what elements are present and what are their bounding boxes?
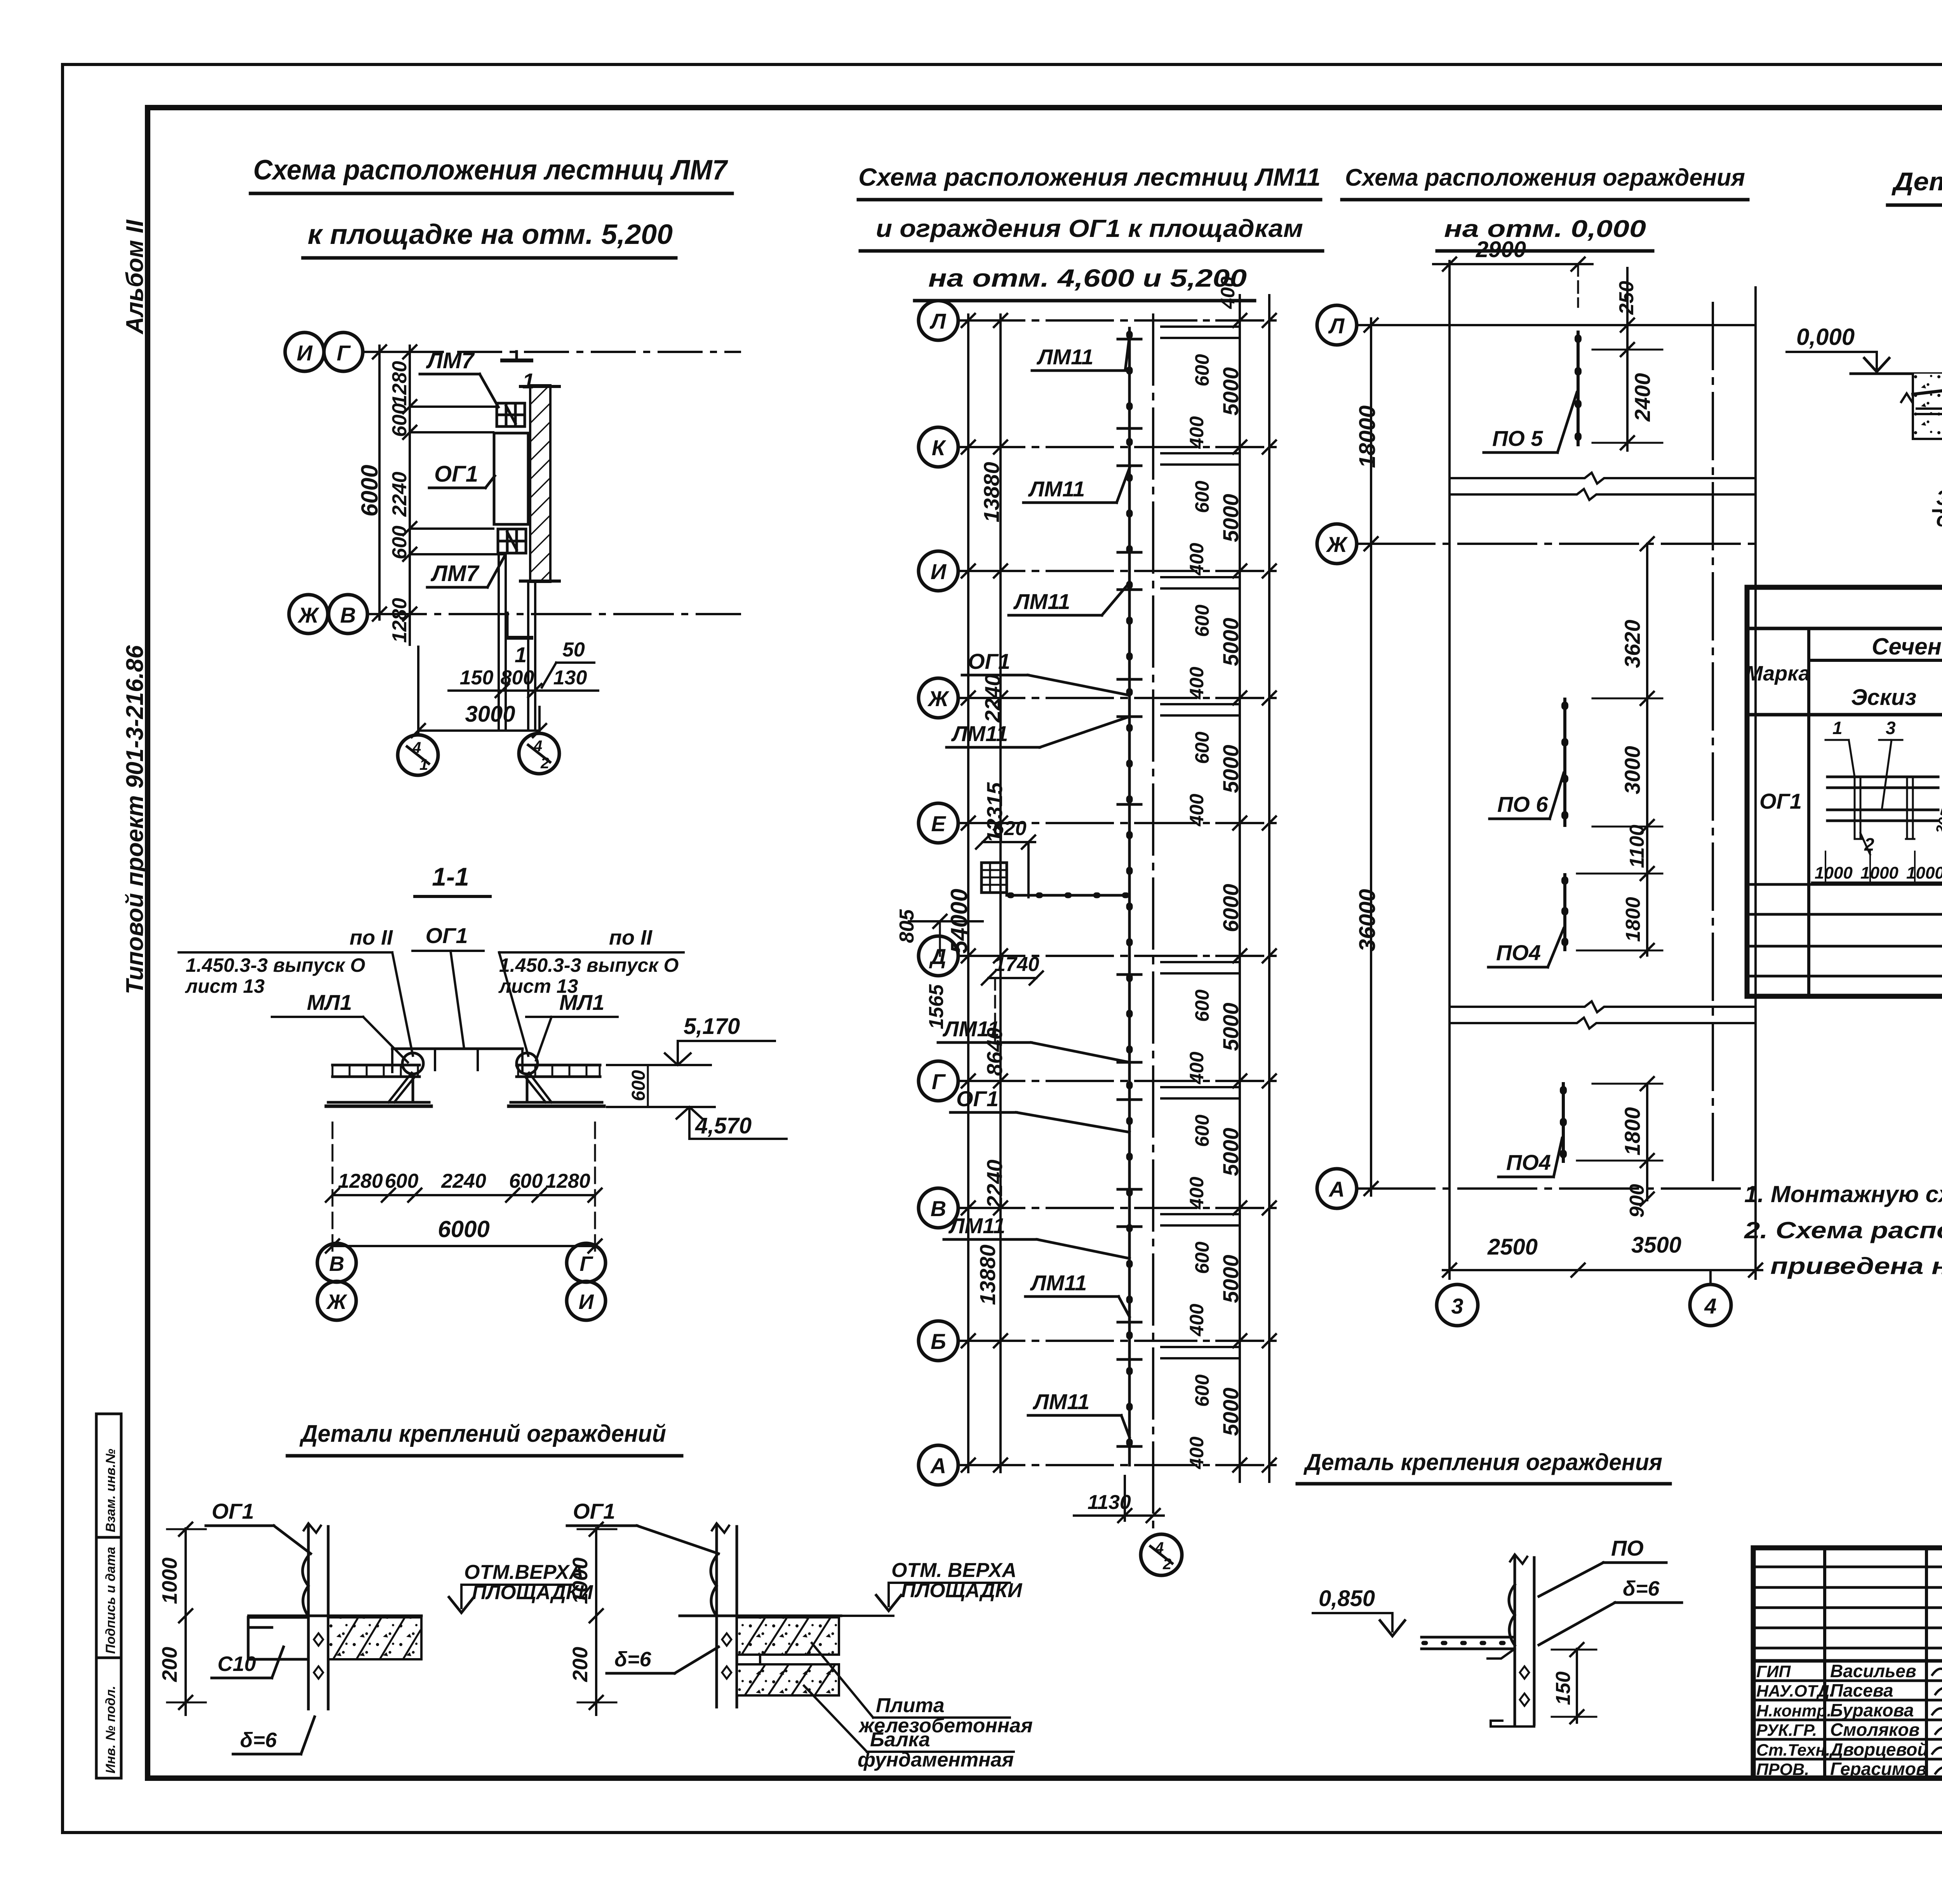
figure ЛМ11: vertical axis dash-dot bbox=[1152, 315, 1154, 1534]
svg-text:3000: 3000 bbox=[1620, 746, 1644, 794]
figure ЛМ7: ОГ1 railing rect bbox=[494, 433, 528, 524]
svg-text:ОГ1: ОГ1 bbox=[425, 923, 468, 948]
svg-text:5000: 5000 bbox=[1218, 494, 1243, 542]
svg-text:Е: Е bbox=[931, 811, 946, 836]
svg-text:ПО4: ПО4 bbox=[1496, 940, 1541, 965]
svg-text:ГИП: ГИП bbox=[1756, 1662, 1791, 1681]
svg-text:1800: 1800 bbox=[1620, 1107, 1644, 1156]
svg-text:2900: 2900 bbox=[1476, 237, 1526, 262]
figure ограждение 0,000: grid circles bbox=[1317, 305, 1756, 1208]
figure ЛМ7: label ЛМ7 bottom bbox=[427, 555, 505, 587]
svg-text:2: 2 bbox=[540, 755, 549, 772]
svg-text:К: К bbox=[932, 435, 947, 460]
svg-text:ЛМ11: ЛМ11 bbox=[948, 1213, 1005, 1238]
figure ограждение: panel ПО4 lower with 1800/900 dims bbox=[1498, 1077, 1662, 1218]
svg-text:5000: 5000 bbox=[1218, 745, 1243, 793]
svg-text:Ж: Ж bbox=[326, 1290, 348, 1314]
figure ЛМ7: 3000 dim and bottom circles bbox=[398, 647, 559, 775]
svg-text:1-1: 1-1 bbox=[432, 862, 469, 891]
notes bbox=[1744, 1181, 1942, 1279]
svg-text:И: И bbox=[579, 1290, 594, 1314]
svg-text:Альбом II: Альбом II bbox=[122, 219, 148, 335]
svg-text:1000: 1000 bbox=[1860, 863, 1898, 882]
svg-text:400: 400 bbox=[1186, 1304, 1208, 1337]
svg-text:ЛМ7: ЛМ7 bbox=[430, 561, 480, 586]
svg-text:Марка: Марка bbox=[1745, 662, 1810, 685]
svg-text:600: 600 bbox=[1191, 480, 1213, 513]
svg-text:ЛМ11: ЛМ11 bbox=[951, 721, 1008, 746]
svg-text:0,850: 0,850 bbox=[1319, 1586, 1375, 1611]
svg-text:2240: 2240 bbox=[980, 674, 1005, 723]
svg-text:НАУ.ОТД.: НАУ.ОТД. bbox=[1756, 1682, 1834, 1700]
bottom-middle detail drawing bbox=[1313, 1536, 1682, 1726]
section 1-1: left reference label bbox=[179, 926, 413, 1056]
svg-text:Дворцевой: Дворцевой bbox=[1829, 1739, 1928, 1760]
svg-text:2: 2 bbox=[1162, 1556, 1171, 1573]
svg-text:1800: 1800 bbox=[1622, 897, 1644, 942]
section 1-1: 5,170 and 4,570 elevations bbox=[607, 1014, 787, 1139]
figure ЛМ11: walkway edge double lines at grids bbox=[1161, 327, 1239, 1358]
svg-text:400: 400 bbox=[1217, 276, 1239, 309]
svg-text:Ж: Ж bbox=[297, 603, 320, 627]
svg-text:3: 3 bbox=[1886, 718, 1896, 738]
svg-text:ЛМ11: ЛМ11 bbox=[1032, 1389, 1089, 1414]
svg-text:Подпись и дата: Подпись и дата bbox=[103, 1547, 118, 1654]
svg-text:1000: 1000 bbox=[1815, 863, 1853, 882]
svg-text:0,000: 0,000 bbox=[1796, 324, 1855, 350]
svg-text:900: 900 bbox=[1626, 1184, 1648, 1218]
svg-text:приведена на листе КЖ 61.: приведена на листе КЖ 61. bbox=[1770, 1253, 1942, 1279]
svg-text:2500: 2500 bbox=[1487, 1234, 1538, 1260]
figure ЛМ7: section mark 1 bottom bbox=[507, 613, 531, 667]
svg-text:600: 600 bbox=[1191, 354, 1213, 386]
svg-text:805: 805 bbox=[896, 909, 918, 943]
svg-text:3620: 3620 bbox=[1620, 620, 1644, 668]
figure ограждение: 250 / 2400 dims bbox=[1592, 268, 1662, 451]
svg-text:200: 200 bbox=[569, 1647, 592, 1682]
bottom-left detail 2: ОГ1 to slab bbox=[567, 1499, 1033, 1771]
svg-text:1.450.3-3 выпуск О: 1.450.3-3 выпуск О bbox=[186, 954, 365, 976]
svg-text:Б: Б bbox=[931, 1329, 946, 1354]
svg-text:Сечения: Сечения bbox=[1872, 634, 1942, 660]
figure ЛМ11: bottom 1130 dim and circle 4/2 bbox=[1074, 1476, 1182, 1575]
svg-text:ПО: ПО bbox=[1611, 1536, 1644, 1560]
svg-text:1. Монтажную схему лестницы: 1. Монтажную схему лестницы ЛМ11. смотре… bbox=[1744, 1181, 1942, 1207]
svg-text:МЛ1: МЛ1 bbox=[559, 990, 604, 1015]
figure ограждение: panel ПО6 bbox=[1490, 699, 1565, 825]
svg-text:400: 400 bbox=[1186, 667, 1208, 700]
figure ограждение: panel boundary verticals bbox=[1450, 261, 1756, 1279]
svg-text:130: 130 bbox=[553, 667, 587, 689]
title: figure 2 ЛМ11 bbox=[858, 163, 1323, 301]
svg-text:Г: Г bbox=[337, 341, 351, 365]
figure ЛМ7: label ОГ1 bbox=[429, 461, 495, 488]
left margin vertical caption: project bbox=[122, 645, 148, 994]
svg-text:ПО 5: ПО 5 bbox=[1492, 426, 1543, 451]
svg-text:600: 600 bbox=[385, 1170, 419, 1192]
svg-text:400: 400 bbox=[1186, 416, 1208, 449]
svg-text:Закладная: Закладная bbox=[1936, 486, 1942, 510]
figure ЛМ7: section mark 1 top bbox=[502, 352, 534, 393]
figure ЛМ7: grid axis lines bbox=[363, 352, 740, 614]
svg-text:1000: 1000 bbox=[569, 1558, 592, 1604]
figure ЛМ11: left bay dimension texts bbox=[946, 462, 1007, 1305]
svg-text:ОГ1: ОГ1 bbox=[968, 649, 1010, 674]
figure ЛМ7: 150 800 130 dims bbox=[449, 667, 598, 697]
svg-text:ПО4: ПО4 bbox=[1506, 1150, 1551, 1175]
svg-text:Плита: Плита bbox=[876, 1694, 945, 1717]
svg-text:Инв. № подл.: Инв. № подл. bbox=[103, 1686, 118, 1773]
svg-text:ЛМ11: ЛМ11 bbox=[1030, 1270, 1087, 1295]
svg-text:600: 600 bbox=[1191, 989, 1213, 1022]
svg-text:МЛ1: МЛ1 bbox=[307, 990, 352, 1015]
svg-text:лист 13: лист 13 bbox=[185, 975, 265, 997]
svg-text:1100: 1100 bbox=[1626, 825, 1648, 868]
svg-text:А: А bbox=[1328, 1177, 1345, 1201]
svg-text:1.450.3-3 выпуск О: 1.450.3-3 выпуск О bbox=[499, 954, 679, 976]
bottom-left detail 1: ОГ1 to С10 channel bbox=[158, 1499, 593, 1754]
svg-text:Г: Г bbox=[579, 1252, 593, 1276]
svg-text:2. Схема расположения площад: 2. Схема расположения площадок на отм. 5… bbox=[1744, 1217, 1942, 1243]
svg-text:В: В bbox=[340, 603, 356, 627]
svg-text:1: 1 bbox=[515, 642, 527, 667]
svg-text:Д: Д bbox=[929, 944, 946, 969]
figure ЛМ7: stair stringers going down bbox=[499, 553, 535, 729]
title: figure 1 ЛМ7 bbox=[251, 155, 732, 258]
svg-text:А: А bbox=[930, 1453, 946, 1478]
svg-text:400: 400 bbox=[1186, 1436, 1208, 1469]
svg-text:36000: 36000 bbox=[1355, 889, 1380, 952]
svg-text:ОТМ.ВЕРХА: ОТМ.ВЕРХА bbox=[464, 1561, 584, 1584]
figure ЛМ11: element labels bbox=[938, 336, 1129, 1437]
svg-text:И: И bbox=[931, 559, 947, 584]
figure ЛМ11: right dimension chain lines bbox=[1233, 295, 1276, 1482]
svg-text:13880: 13880 bbox=[975, 1244, 1000, 1305]
svg-text:Схема расположения лестниц ЛМ7: Схема расположения лестниц ЛМ7 bbox=[253, 155, 728, 186]
svg-text:5000: 5000 bbox=[1218, 1128, 1243, 1176]
svg-text:1: 1 bbox=[1832, 718, 1843, 738]
table data rows bbox=[1747, 748, 1942, 976]
svg-text:5000: 5000 bbox=[1218, 1255, 1243, 1303]
svg-text:2240: 2240 bbox=[982, 1159, 1007, 1208]
svg-text:400: 400 bbox=[1186, 543, 1208, 576]
svg-text:Схема расположения ограждения: Схема расположения ограждения bbox=[1345, 164, 1745, 191]
svg-text:2240: 2240 bbox=[441, 1170, 486, 1192]
svg-text:6000: 6000 bbox=[438, 1216, 489, 1242]
svg-text:600: 600 bbox=[1191, 1241, 1213, 1274]
svg-text:по II: по II bbox=[350, 926, 393, 949]
svg-text:600: 600 bbox=[509, 1170, 543, 1192]
svg-text:1000: 1000 bbox=[158, 1558, 181, 1604]
svg-text:1: 1 bbox=[419, 756, 428, 773]
section 1-1: bottom dimensions bbox=[326, 1123, 602, 1253]
section 1-1: drawing bbox=[326, 1049, 604, 1106]
svg-text:Л: Л bbox=[1328, 313, 1345, 338]
svg-text:ОГ1: ОГ1 bbox=[573, 1499, 615, 1523]
svg-text:ПРОВ.: ПРОВ. bbox=[1756, 1760, 1809, 1779]
svg-text:3500: 3500 bbox=[1631, 1232, 1681, 1258]
svg-text:3000: 3000 bbox=[465, 701, 515, 727]
svg-text:2240: 2240 bbox=[388, 472, 411, 517]
left slab bbox=[332, 1065, 419, 1077]
svg-text:1000: 1000 bbox=[1906, 863, 1942, 882]
svg-text:600: 600 bbox=[388, 403, 411, 437]
svg-text:на отм. 0,000: на отм. 0,000 bbox=[1444, 216, 1646, 242]
figure ограждение: 2900 dim top bbox=[1433, 237, 1592, 307]
figure ЛМ11: right chain dimension texts bbox=[1186, 276, 1243, 1469]
svg-text:Схема расположения лестниц ЛМ1: Схема расположения лестниц ЛМ11 bbox=[858, 163, 1321, 191]
svg-text:620: 620 bbox=[993, 817, 1027, 840]
svg-text:Л: Л bbox=[929, 309, 947, 333]
svg-text:В: В bbox=[931, 1196, 946, 1221]
figure ЛМ7: dimension texts bbox=[357, 361, 411, 643]
svg-text:5000: 5000 bbox=[1218, 1387, 1243, 1436]
svg-text:Детали креплений ограждений.: Детали креплений ограждений. bbox=[1892, 167, 1942, 196]
figure ЛМ11: stair flight end caps bbox=[1118, 339, 1141, 1446]
svg-text:С10: С10 bbox=[218, 1652, 256, 1676]
svg-text:150: 150 bbox=[460, 667, 494, 689]
figure ограждение: panel ПО4 upper bbox=[1488, 875, 1565, 967]
svg-text:Ст.Техн.: Ст.Техн. bbox=[1756, 1741, 1830, 1760]
title: figure 3 ограждение bbox=[1342, 164, 1748, 251]
svg-text:ЛМ11: ЛМ11 bbox=[1028, 477, 1085, 501]
svg-text:и ограждения ОГ1 к площадкам: и ограждения ОГ1 к площадкам bbox=[876, 214, 1303, 242]
svg-text:4: 4 bbox=[1155, 1539, 1164, 1556]
svg-text:Пасева: Пасева bbox=[1830, 1680, 1893, 1700]
figure ограждение: bottom 2500/3500 dim and circles 3 4 bbox=[1437, 1232, 1762, 1326]
svg-text:600: 600 bbox=[628, 1070, 649, 1101]
svg-text:ЛМ7: ЛМ7 bbox=[426, 348, 475, 373]
figure ограждение: break lines bottom bbox=[1450, 1001, 1756, 1029]
figure ЛМ7: vertical dimension lines bbox=[373, 345, 416, 645]
ОГ1 bridge top bbox=[392, 1048, 522, 1050]
svg-text:Эскиз: Эскиз bbox=[1851, 685, 1916, 710]
svg-text:6000: 6000 bbox=[1218, 884, 1243, 932]
svg-text:400: 400 bbox=[1186, 794, 1208, 827]
title block (stamp) bbox=[1753, 1548, 1942, 1778]
right slab bbox=[517, 1065, 600, 1077]
svg-text:600: 600 bbox=[1191, 604, 1213, 637]
support braces right bbox=[525, 1073, 552, 1102]
svg-text:Г: Г bbox=[932, 1069, 946, 1094]
svg-text:5,170: 5,170 bbox=[684, 1014, 740, 1039]
svg-text:1280: 1280 bbox=[545, 1170, 590, 1192]
svg-text:3: 3 bbox=[1451, 1294, 1463, 1318]
svg-text:600: 600 bbox=[1191, 1114, 1213, 1147]
svg-text:4,570: 4,570 bbox=[695, 1113, 752, 1138]
svg-text:Васильев: Васильев bbox=[1830, 1661, 1916, 1681]
svg-text:400: 400 bbox=[1186, 1177, 1208, 1210]
svg-text:Ж: Ж bbox=[1326, 532, 1348, 557]
svg-text:по II: по II bbox=[609, 926, 653, 949]
svg-text:ОГ1: ОГ1 bbox=[1759, 789, 1802, 813]
title: details top right bbox=[1888, 167, 1942, 205]
svg-text:РУК.ГР.: РУК.ГР. bbox=[1756, 1721, 1817, 1740]
svg-text:Смоляков: Смоляков bbox=[1830, 1720, 1919, 1740]
figure ЛМ11: 805 and 1565 dims near Д bbox=[896, 909, 1043, 1041]
svg-text:ЛМ11: ЛМ11 bbox=[1036, 345, 1093, 369]
svg-text:50: 50 bbox=[562, 639, 585, 661]
figure ограждение: panel ПО5 bbox=[1484, 332, 1578, 453]
figure ЛМ7: dim transfer lines bbox=[410, 407, 503, 554]
svg-text:6000: 6000 bbox=[357, 465, 383, 517]
svg-text:1280: 1280 bbox=[388, 598, 411, 643]
svg-text:ОГ1: ОГ1 bbox=[212, 1499, 254, 1523]
svg-text:на отм. 4,600 и 5,200: на отм. 4,600 и 5,200 bbox=[928, 264, 1247, 292]
svg-text:ОТМ. ВЕРХА: ОТМ. ВЕРХА bbox=[891, 1559, 1016, 1582]
svg-text:600: 600 bbox=[1191, 731, 1213, 764]
svg-text:Н.контр.: Н.контр. bbox=[1756, 1702, 1831, 1720]
svg-text:Герасимов: Герасимов bbox=[1830, 1759, 1927, 1779]
svg-text:ОГ1: ОГ1 bbox=[434, 461, 478, 487]
svg-text:Взам. инв.№: Взам. инв.№ bbox=[103, 1449, 118, 1532]
bottom-left details title bbox=[287, 1420, 682, 1456]
svg-text:2400: 2400 bbox=[1630, 373, 1655, 422]
svg-text:Детали креплений ограждений: Детали креплений ограждений bbox=[299, 1420, 666, 1447]
svg-text:5000: 5000 bbox=[1218, 618, 1243, 666]
svg-text:Буракова: Буракова bbox=[1830, 1700, 1914, 1720]
figure ЛМ7: 50 label bbox=[542, 639, 594, 687]
svg-text:600: 600 bbox=[1191, 1374, 1213, 1407]
svg-text:150: 150 bbox=[1552, 1671, 1575, 1705]
table sketch in Эскиз cell bbox=[1812, 718, 1942, 882]
svg-text:4: 4 bbox=[533, 738, 542, 755]
svg-text:δ=6: δ=6 bbox=[614, 1648, 651, 1671]
svg-text:И: И bbox=[297, 341, 313, 365]
pivots bbox=[402, 1053, 423, 1074]
section 1-1: ОГ1 label bbox=[412, 923, 484, 1049]
left margin vertical caption: album bbox=[122, 219, 148, 335]
svg-text:Типовой проект 901-3-216.86: Типовой проект 901-3-216.86 bbox=[122, 645, 148, 994]
section 1-1: МЛ1 labels bbox=[272, 990, 618, 1062]
svg-text:4: 4 bbox=[412, 739, 421, 756]
section 1-1: right reference label bbox=[498, 926, 684, 1056]
figure ЛМ7: wall with hatching bbox=[520, 385, 559, 582]
svg-text:13880: 13880 bbox=[979, 462, 1004, 522]
svg-text:ОГ1: ОГ1 bbox=[956, 1086, 999, 1111]
figure ЛМ11: railing line with post dots bbox=[1128, 328, 1131, 1465]
table Ведомость элементов bbox=[1747, 587, 1942, 996]
svg-text:400: 400 bbox=[1186, 1051, 1208, 1084]
figure ЛМ11: left dimension chain lines bbox=[962, 314, 1007, 1472]
svg-text:ПО 6: ПО 6 bbox=[1497, 792, 1548, 816]
figure ограждение: 3620 3000 1100 1800 dims bbox=[1577, 537, 1662, 957]
figure ЛМ11 scheme: grid circles and axis lines bbox=[919, 301, 1278, 1485]
svg-text:1740: 1740 bbox=[994, 953, 1039, 976]
svg-text:1280: 1280 bbox=[338, 1170, 383, 1192]
figure ЛМ11: 620 detail in bay Е-Д bbox=[976, 817, 1129, 897]
svg-text:18000: 18000 bbox=[1355, 406, 1380, 468]
svg-text:200: 200 bbox=[158, 1647, 181, 1682]
support braces left bbox=[388, 1073, 415, 1102]
svg-text:ЛМ11: ЛМ11 bbox=[1013, 589, 1070, 614]
section 1-1: bottom grid circles bbox=[317, 1243, 606, 1320]
detail: left fastening at 0,000 bbox=[1787, 260, 1942, 531]
svg-text:ЛМ11: ЛМ11 bbox=[942, 1016, 999, 1041]
svg-text:δ=6: δ=6 bbox=[1623, 1577, 1660, 1600]
figure section 1-1: title bbox=[415, 862, 490, 896]
svg-text:1130: 1130 bbox=[1088, 1491, 1131, 1514]
svg-text:В: В bbox=[329, 1252, 345, 1276]
svg-text:Балка: Балка bbox=[870, 1728, 930, 1751]
figure ЛМ7: lower stair ЛМ7 element bbox=[498, 529, 526, 553]
stamp signatures bbox=[1932, 1665, 1942, 1773]
svg-text:1280: 1280 bbox=[388, 361, 411, 406]
figure ЛМ7: label ЛМ7 top bbox=[420, 348, 498, 407]
svg-text:5000: 5000 bbox=[1218, 367, 1243, 416]
svg-text:Ж: Ж bbox=[927, 686, 950, 711]
svg-text:Деталь крепления ограждения: Деталь крепления ограждения bbox=[1303, 1449, 1662, 1475]
svg-text:600: 600 bbox=[388, 526, 411, 559]
figure ограждение: break lines top bbox=[1450, 473, 1756, 500]
svg-text:1565: 1565 bbox=[925, 984, 948, 1029]
svg-text:5000: 5000 bbox=[1218, 1002, 1243, 1051]
bottom-middle detail title bbox=[1297, 1449, 1670, 1484]
figure ЛМ7 scheme: grid circles И Г bbox=[285, 332, 367, 634]
left margin bottom strip bbox=[96, 1414, 121, 1778]
svg-text:δ=6: δ=6 bbox=[240, 1728, 277, 1752]
figure ограждение: left overall dim line 18000/36000 bbox=[1355, 318, 1380, 1196]
svg-text:4: 4 bbox=[1704, 1294, 1716, 1318]
figure ЛМ7: upper stair ЛМ7 element bbox=[497, 403, 525, 426]
svg-text:1: 1 bbox=[522, 369, 534, 393]
svg-text:к площадке на отм. 5,200: к площадке на отм. 5,200 bbox=[308, 219, 673, 250]
